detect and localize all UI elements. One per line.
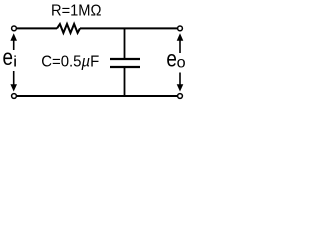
svg-text:e: e — [3, 44, 14, 70]
svg-text:R=1MΩ: R=1MΩ — [51, 3, 102, 20]
svg-text:e: e — [166, 46, 177, 72]
svg-text:o: o — [177, 55, 186, 72]
svg-text:C=0.5µF: C=0.5µF — [41, 54, 99, 71]
svg-text:i: i — [13, 54, 17, 71]
